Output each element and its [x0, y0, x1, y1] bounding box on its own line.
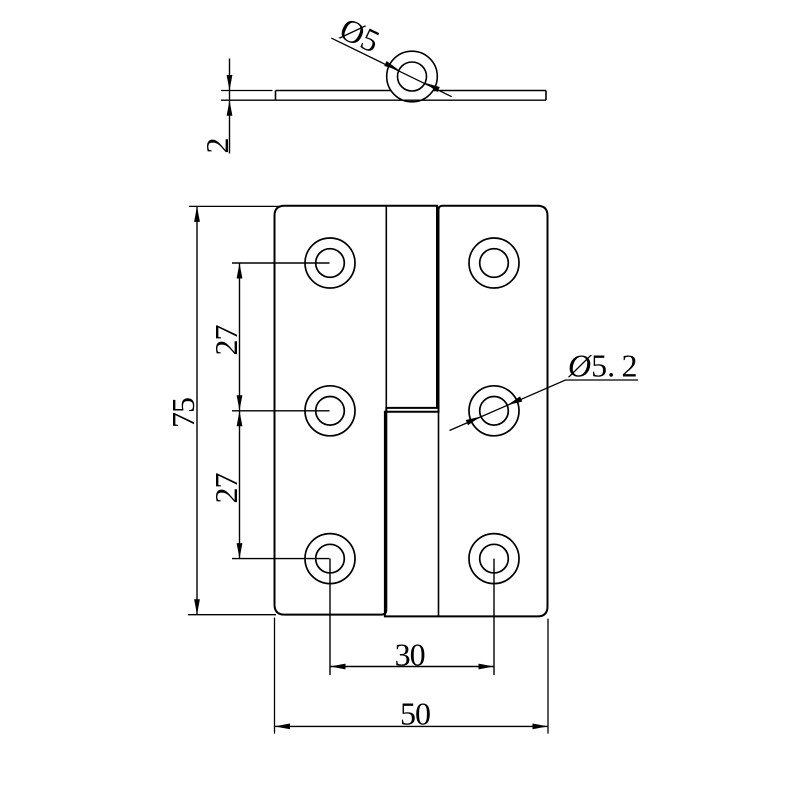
30 dimension line [330, 666, 494, 668]
right leaf fold line [438, 412, 440, 617]
30 arrow left [330, 664, 346, 670]
75 arrow top [194, 206, 200, 222]
50 extension line right [547, 619, 549, 734]
50 dimension line [275, 725, 549, 727]
top view: leaf bar top edge left segment [276, 90, 391, 92]
hole mid-right bore [480, 397, 509, 426]
svg-text:30: 30 [395, 637, 425, 673]
75 extension line top [189, 205, 281, 207]
Ø5 leader line [331, 38, 451, 97]
hole row2 center line [232, 410, 330, 412]
top view: knuckle pin hole circle [398, 62, 427, 91]
75 dimension line [196, 206, 198, 614]
right leaf plate outline [385, 206, 548, 617]
top view: leaf bar right end edge [545, 91, 547, 101]
svg-text:27: 27 [208, 325, 244, 356]
bottom-right hole extension line [493, 559, 495, 675]
Ø5 arrow upper-left [384, 61, 399, 70]
hole row3 center line [232, 558, 330, 560]
hole bottom-right bore [480, 544, 509, 573]
Ø5.2 arrow upper-right [507, 396, 522, 405]
svg-text:27: 27 [208, 473, 244, 504]
27 arrows row2 [237, 395, 243, 411]
hole mid-left bore [316, 397, 345, 426]
top view: knuckle outer circle [387, 51, 438, 102]
hole top-right bore [480, 249, 509, 278]
bottom-left hole extension line [329, 559, 331, 675]
75 arrow bottom [194, 599, 200, 615]
top view: leaf bar top edge right segment [434, 90, 546, 92]
top view: leaf bar bottom edge with extension to dimension [221, 99, 546, 101]
50 extension line left [274, 618, 276, 734]
27 dimension line [239, 263, 241, 559]
left leaf fold line [385, 206, 387, 408]
svg-text:75: 75 [165, 398, 201, 428]
left leaf plate outline [275, 206, 438, 615]
thickness arrow upper [227, 75, 233, 91]
50 arrow left [275, 724, 291, 730]
75 extension line bottom [188, 614, 276, 616]
svg-text:Ø5. 2: Ø5. 2 [567, 348, 638, 384]
Ø5.2 arrow lower-left [466, 417, 481, 426]
hole row1 center line [232, 262, 330, 264]
30 arrow right [479, 664, 495, 670]
Ø5 arrow lower-right [425, 83, 440, 92]
svg-text:50: 50 [400, 696, 430, 732]
hole top-left bore [316, 249, 345, 278]
hole mid-left countersink [305, 386, 355, 436]
thickness dimension line 2 [229, 59, 231, 154]
27 arrow row3 [237, 543, 243, 559]
hole top-left countersink [305, 238, 355, 288]
thickness arrow lower [227, 100, 233, 116]
svg-text:2: 2 [199, 138, 235, 154]
top view: leaf bar left end edge [275, 91, 277, 101]
hole mid-right countersink [469, 386, 519, 436]
hole bottom-left bore [316, 544, 345, 573]
hole bottom-left countersink [305, 534, 355, 584]
thickness extension line top [221, 90, 273, 92]
27 arrow row1 [237, 263, 243, 279]
hole top-right countersink [469, 238, 519, 288]
Ø5.2 leader line [450, 380, 639, 431]
50 arrow right [533, 724, 549, 730]
hole bottom-right countersink [469, 534, 519, 584]
